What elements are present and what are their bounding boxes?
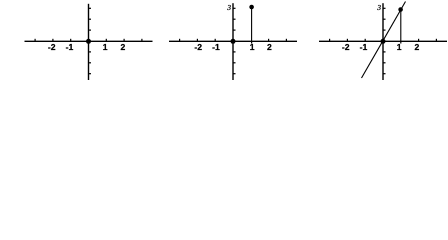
filled point at origin (graph 2) (231, 39, 236, 44)
vertical segment at x=1 up to (1,3) (graph 3) (400, 10, 402, 42)
x-axis tick marks (graph 3) (330, 39, 437, 44)
filled point at (1,3) (graph 2) (249, 5, 254, 10)
svg-text:-2: -2 (48, 42, 56, 52)
y-axis tick marks (graph 2) (233, 8, 236, 73)
svg-text:-1: -1 (360, 42, 368, 52)
svg-text:1: 1 (103, 42, 108, 52)
x-axis (graph 1) (25, 40, 153, 42)
slanted line y=3x (graph 3) (362, 2, 406, 79)
y-axis (graph 3) (382, 3, 384, 80)
svg-text:2: 2 (121, 42, 126, 52)
vertical segment at x=1 up to (1,3) (graph 2) (251, 7, 253, 41)
svg-text:3: 3 (226, 3, 231, 12)
svg-text:3: 3 (376, 3, 381, 12)
svg-text:1: 1 (397, 42, 402, 52)
filled point at origin (graph 1) (86, 39, 91, 44)
svg-text:-1: -1 (212, 42, 220, 52)
svg-text:-2: -2 (342, 42, 350, 52)
filled point at (1,3) (graph 3) (398, 7, 403, 12)
svg-text:2: 2 (267, 42, 272, 52)
svg-text:-1: -1 (66, 42, 74, 52)
svg-text:-2: -2 (194, 42, 202, 52)
y-axis tick marks (graph 3) (383, 8, 386, 73)
svg-text:2: 2 (415, 42, 420, 52)
y-axis (graph 2) (232, 3, 234, 80)
filled point at origin (graph 3) (381, 39, 386, 44)
y-axis tick marks (graph 1) (89, 8, 92, 73)
x-axis tick marks (graph 1) (35, 39, 142, 42)
x-axis (graph 3) (319, 40, 447, 42)
x-axis tick marks (graph 2) (180, 39, 287, 44)
y-axis (graph 1) (88, 4, 90, 80)
x-axis (graph 2) (169, 40, 297, 42)
svg-text:1: 1 (250, 42, 255, 52)
